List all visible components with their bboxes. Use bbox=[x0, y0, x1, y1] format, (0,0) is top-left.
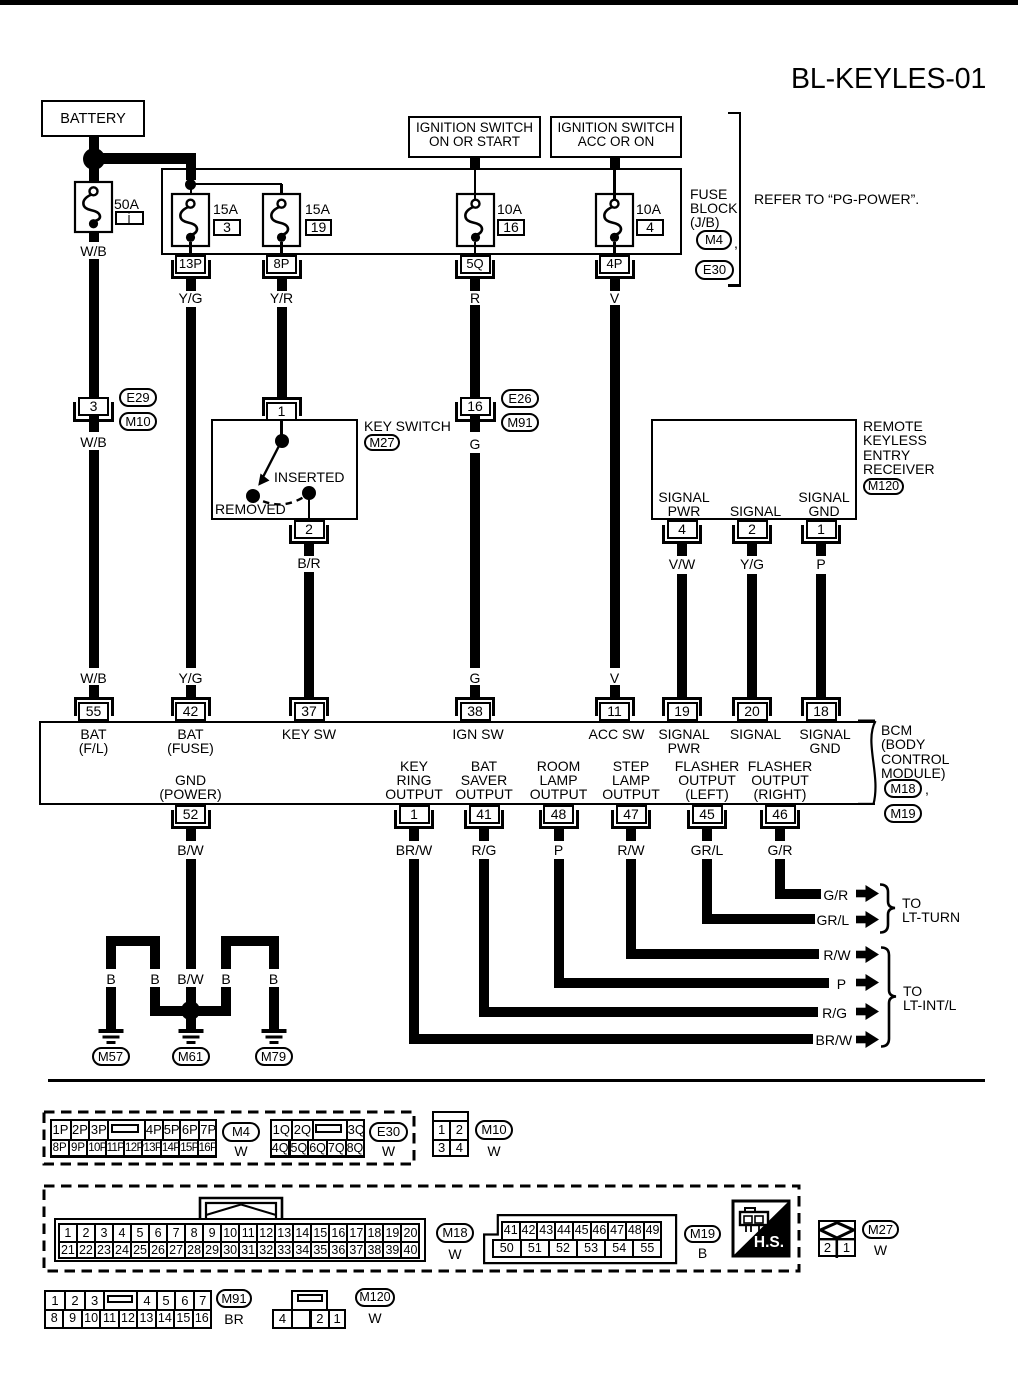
BCM pin label BAT (F/L) bbox=[34, 726, 154, 742]
receiver label SIGNAL bbox=[696, 503, 816, 519]
wire ground left branch horizontal bbox=[150, 1006, 191, 1016]
border bar top bbox=[0, 0, 1018, 5]
wire fuse 19 bottom lead bbox=[280, 242, 282, 255]
connector 47 BCM bottom bbox=[611, 810, 651, 829]
connector 37 BCM bbox=[289, 697, 329, 716]
BCM pin label STEP LAMP OUTPUT bbox=[571, 758, 691, 774]
connector 20 BCM bbox=[732, 697, 772, 716]
label M18 color W bbox=[395, 1246, 515, 1262]
connector ref M18 oval bbox=[884, 779, 922, 798]
wire V col5 seg2 bbox=[610, 687, 620, 699]
BCM pin label FLASHER OUTPUT (LEFT) bbox=[647, 758, 767, 774]
ground ref M61 oval bbox=[172, 1047, 210, 1066]
wire ground M79 leg bbox=[269, 946, 279, 970]
wire W/B col1 seg2 bbox=[89, 259, 99, 432]
keyless receiver box bbox=[651, 419, 857, 520]
ground M61 bbox=[178, 1029, 204, 1045]
wire ign1 stub bbox=[470, 158, 480, 171]
BCM pin label SIGNAL GND bbox=[765, 726, 885, 742]
label B left inner bbox=[95, 971, 215, 987]
connector 8P bbox=[262, 260, 302, 279]
BCM side label bbox=[881, 722, 912, 738]
fuse 19 number box bbox=[305, 219, 332, 236]
fuse 16 number box bbox=[497, 219, 525, 236]
connector 2 key switch bbox=[289, 525, 329, 544]
connector face M91 slot bbox=[107, 1295, 133, 1304]
connector face M10 bbox=[432, 1111, 470, 1158]
label Y/G col2 b bbox=[131, 670, 251, 686]
wire Y/G col2 seg1 bbox=[186, 307, 196, 669]
arrow BR/W bbox=[856, 1031, 879, 1048]
ground M57 bbox=[98, 1029, 124, 1045]
refer bracket bbox=[739, 112, 742, 288]
label B right inner bbox=[166, 971, 286, 987]
receiver side label bbox=[863, 418, 923, 434]
wire battery stub bbox=[89, 137, 99, 150]
BCM pin label GND (POWER) bbox=[131, 772, 251, 788]
connector face M91 bbox=[44, 1290, 212, 1329]
connector face M4 slot bbox=[111, 1124, 139, 1133]
wire V col5 bbox=[610, 305, 620, 668]
label REMOVED bbox=[215, 501, 286, 517]
label TO LT-TURN bbox=[902, 895, 921, 911]
connector 55 BCM bbox=[74, 697, 114, 716]
label M91 color BR bbox=[174, 1311, 294, 1327]
wire P output horizontal bbox=[554, 978, 830, 988]
label Y/G col7 bbox=[692, 556, 812, 572]
connector face E30 slot bbox=[315, 1124, 342, 1133]
wire battery feed horizontal bbox=[89, 153, 196, 164]
wire 50A drop bbox=[89, 168, 99, 183]
label P col8 bbox=[761, 556, 881, 572]
label Y/R col3 bbox=[222, 290, 342, 306]
label M120 color W bbox=[315, 1310, 435, 1326]
wire fuse 19 lead bbox=[280, 184, 282, 200]
connector 13P bbox=[171, 260, 211, 279]
label R/G output bbox=[424, 842, 544, 858]
fuse j number box bbox=[115, 211, 144, 225]
connector 48 BCM bottom bbox=[539, 810, 579, 829]
wire ground M61 stub bbox=[186, 1011, 196, 1030]
wire GR/L output vertical bbox=[702, 859, 712, 925]
ignition switch on/start box bbox=[408, 116, 541, 158]
label M10 color W bbox=[434, 1143, 554, 1159]
label V/W col6 bbox=[622, 556, 742, 572]
connector 45 BCM bottom bbox=[687, 810, 727, 829]
key switch pivot contact bbox=[275, 434, 289, 448]
wire BR/W output vertical bbox=[409, 859, 419, 1045]
label B/R col3 bbox=[249, 555, 369, 571]
label Y/G col2 bbox=[131, 290, 251, 306]
connector ref M91 oval bbox=[501, 413, 539, 432]
wire P col8 bbox=[816, 574, 826, 699]
connector 1 BCM bottom bbox=[394, 810, 434, 829]
label R/W at arrow bbox=[823, 947, 850, 963]
wire W/B col1 seg4 bbox=[89, 687, 99, 699]
connector face M120 slot bbox=[297, 1294, 323, 1303]
fuse 10A 4 bbox=[594, 192, 635, 248]
connector 19 BCM bbox=[662, 697, 702, 716]
connector face M18 key tab bbox=[197, 1195, 285, 1225]
connector face M120 bbox=[272, 1309, 293, 1329]
wire G/R output horizontal bbox=[775, 889, 821, 899]
connector ref M4 oval bottom bbox=[222, 1122, 260, 1142]
wire Y/G col2 seg2 bbox=[186, 687, 196, 699]
hand symbol H.S. bbox=[731, 1199, 791, 1258]
ignition switch acc box bbox=[550, 116, 682, 158]
fuse block J/B outline bbox=[161, 168, 682, 255]
label B/W ground bbox=[131, 971, 251, 987]
key switch arm bbox=[250, 438, 290, 490]
wire R col4 bbox=[470, 305, 480, 432]
connector face M18 bbox=[54, 1218, 425, 1261]
BCM pin label ACC SW bbox=[557, 726, 677, 742]
connector ref E29 oval bbox=[119, 388, 157, 407]
wire fuse 3 bottom lead bbox=[189, 242, 191, 255]
connector 11 BCM bbox=[595, 697, 635, 716]
connector 1 receiver bbox=[801, 525, 841, 544]
wire ground right branch vertical bbox=[221, 946, 231, 970]
fuse 50A j bbox=[73, 180, 114, 234]
separator line bbox=[48, 1079, 985, 1082]
label BR/W at arrow bbox=[816, 1032, 853, 1048]
wire inserted lead bbox=[308, 499, 310, 520]
wire fuse 4 top lead bbox=[613, 169, 615, 200]
BCM pin label KEY RING OUTPUT bbox=[354, 758, 474, 774]
wire pivot lead bbox=[280, 420, 282, 436]
dashed group box B bbox=[42, 1184, 801, 1273]
fuse 15A 19 bbox=[261, 192, 302, 248]
wire R/G output vertical bbox=[479, 859, 489, 1017]
BCM pin label SIGNAL bbox=[696, 726, 816, 742]
junction ground node bbox=[181, 1001, 200, 1020]
label W/B col1 a bbox=[34, 243, 154, 259]
connector 1 key switch bbox=[262, 397, 302, 416]
connector 3 inline bbox=[73, 402, 114, 422]
fuse 4 number box bbox=[636, 219, 664, 236]
connector 16 inline bbox=[455, 402, 496, 422]
wire R/W output horizontal bbox=[626, 949, 819, 959]
wire P output vertical bbox=[554, 859, 564, 988]
connector ref M120 oval bottom bbox=[355, 1288, 395, 1308]
fuse 15A 3 bbox=[170, 192, 211, 248]
wire W/B col1 seg3 bbox=[89, 450, 99, 668]
label R/G at arrow bbox=[822, 1005, 847, 1021]
fuse 3 number box bbox=[213, 219, 241, 236]
arrow GR/L bbox=[856, 911, 879, 928]
connector face M19 bbox=[483, 1214, 678, 1265]
arrow G/R bbox=[856, 885, 879, 902]
wire fuse 16 bottom lead bbox=[474, 242, 476, 255]
wire feed drop to fuse bus bbox=[186, 164, 196, 180]
connector 18 BCM bbox=[801, 697, 841, 716]
ground ref M57 oval bbox=[92, 1047, 130, 1066]
BCM pin label BAT (FUSE) bbox=[131, 726, 251, 742]
key switch box bbox=[211, 419, 358, 521]
wire ground left branch vertical bbox=[150, 946, 160, 970]
BCM torn edge bbox=[858, 716, 884, 808]
label M27 color W bbox=[821, 1242, 941, 1258]
BCM pin label KEY SW bbox=[249, 726, 369, 742]
wire fuse bus bbox=[190, 183, 282, 185]
label GR/L at arrow bbox=[817, 912, 850, 928]
label B left outer bbox=[51, 971, 171, 987]
arrow R/G bbox=[856, 1003, 879, 1020]
wire ground left top bar bbox=[106, 936, 160, 946]
connector ref M91 oval bottom bbox=[216, 1289, 252, 1309]
connector ref M19 oval bottom bbox=[684, 1225, 721, 1243]
connector ref E26 oval bbox=[501, 389, 539, 408]
connector ref M120 oval bbox=[863, 478, 904, 495]
wire ign2 stub bbox=[610, 158, 620, 171]
label P output bbox=[499, 842, 619, 858]
label G/R at arrow bbox=[823, 887, 848, 903]
junction battery node bbox=[83, 148, 105, 170]
wire ground right top bar bbox=[221, 936, 279, 946]
wire R/W output vertical bbox=[626, 859, 636, 960]
label B/W output bbox=[131, 842, 251, 858]
BCM pin label IGN SW bbox=[418, 726, 538, 742]
connector ref E30 oval bbox=[695, 260, 734, 280]
label E30 color W bbox=[329, 1143, 449, 1159]
connector face M27 bbox=[818, 1220, 856, 1258]
label M19 color B bbox=[643, 1245, 763, 1261]
fuse block label bbox=[690, 186, 727, 202]
ground ref M79 oval bbox=[255, 1047, 293, 1066]
wire V/W col6 bbox=[677, 574, 687, 699]
connector ref M27 oval bbox=[364, 434, 400, 451]
label H.S. bbox=[748, 1234, 790, 1252]
wire B/W to ground seg1 bbox=[186, 859, 196, 970]
label INSERTED bbox=[274, 469, 345, 485]
label W/B col1 b bbox=[34, 434, 154, 450]
arrow P bbox=[856, 974, 879, 991]
BCM box bbox=[39, 721, 876, 805]
wire ground right branch horizontal bbox=[190, 1006, 231, 1016]
connector 42 BCM bbox=[171, 697, 211, 716]
receiver label SIGNAL GND bbox=[764, 489, 884, 505]
connector ref M27 oval bottom bbox=[862, 1220, 899, 1240]
wire R/G output horizontal bbox=[479, 1007, 818, 1017]
wire BR/W output horizontal bbox=[409, 1034, 813, 1044]
ground M79 bbox=[261, 1029, 287, 1045]
wire ground M57 leg bbox=[106, 946, 116, 970]
connector face M27 pin labels bbox=[768, 1240, 888, 1255]
label G col4 b bbox=[415, 670, 535, 686]
key switch label bbox=[364, 418, 451, 434]
connector face M4 bbox=[50, 1119, 218, 1158]
label W/B col1 c bbox=[34, 670, 154, 686]
connector ref M10 oval bottom bbox=[475, 1120, 513, 1140]
BCM pin label BAT SAVER OUTPUT bbox=[424, 758, 544, 774]
note refer to PG-POWER bbox=[754, 191, 919, 207]
brace TO LT-TURN bbox=[878, 883, 898, 934]
label R col4 bbox=[415, 290, 535, 306]
fuse 10A 16 bbox=[455, 192, 496, 248]
connector ref M10 oval bbox=[119, 412, 157, 431]
wire Y/R col3 bbox=[277, 307, 287, 397]
connector ref M4 oval bbox=[696, 230, 732, 250]
connector 2 receiver bbox=[732, 525, 772, 544]
key switch travel arc dashed bbox=[248, 488, 314, 514]
wire fuse 16 top lead bbox=[474, 169, 476, 200]
wire B/R col3 bbox=[304, 572, 314, 699]
dashed group box A bbox=[42, 1110, 416, 1166]
wire G/R output vertical bbox=[775, 859, 785, 899]
BCM pin label FLASHER OUTPUT (RIGHT) bbox=[720, 758, 840, 774]
wire W/B col1 seg1 bbox=[89, 232, 99, 242]
key switch removed contact bbox=[246, 489, 260, 503]
label V col5 b bbox=[555, 670, 675, 686]
arrow R/W bbox=[856, 946, 879, 963]
label GR/L output bbox=[647, 842, 767, 858]
connector face E30 bbox=[270, 1119, 366, 1158]
label P at arrow bbox=[837, 976, 846, 992]
wire fuse 4 bottom lead bbox=[613, 242, 615, 255]
label B right outer bbox=[214, 971, 334, 987]
wire G col4 seg2 bbox=[470, 453, 480, 669]
brace TO LT-INT/L bbox=[879, 946, 899, 1048]
wire G col4 seg3 bbox=[470, 687, 480, 699]
wire fuse 3 lead bbox=[190, 184, 192, 200]
label M4 color W bbox=[181, 1143, 301, 1159]
wire Y/G col7 bbox=[747, 574, 757, 699]
connector ref M19 oval bbox=[884, 804, 922, 823]
battery B1 bbox=[41, 100, 145, 137]
label TO LT-INT/L bbox=[903, 983, 922, 999]
connector 5Q bbox=[455, 260, 495, 279]
label BR/W output bbox=[354, 842, 474, 858]
connector 46 BCM bottom bbox=[760, 810, 800, 829]
connector 38 BCM bbox=[455, 697, 495, 716]
label G col4 a bbox=[415, 436, 535, 452]
junction fuse bus node bbox=[185, 179, 196, 190]
connector 41 BCM bottom bbox=[464, 810, 504, 829]
connector 52 BCM bottom bbox=[171, 810, 211, 829]
title BL-KEYLES-01 bbox=[791, 63, 986, 96]
connector ref M18 oval bottom bbox=[436, 1223, 474, 1243]
wire B/W to ground seg2 bbox=[186, 987, 196, 1006]
label V col5 bbox=[555, 290, 675, 306]
label G/R output bbox=[720, 842, 840, 858]
connector 4P bbox=[595, 260, 635, 279]
receiver label SIGNAL PWR bbox=[624, 489, 744, 505]
connector face M120 tab bbox=[291, 1290, 328, 1312]
wire GR/L output horizontal bbox=[702, 914, 815, 924]
key switch inserted contact bbox=[302, 486, 316, 500]
connector ref E30 oval bottom bbox=[369, 1122, 408, 1142]
BCM pin label ROOM LAMP OUTPUT bbox=[499, 758, 619, 774]
connector 4 receiver bbox=[662, 525, 702, 544]
label R/W output bbox=[571, 842, 691, 858]
BCM pin label SIGNAL PWR bbox=[624, 726, 744, 742]
